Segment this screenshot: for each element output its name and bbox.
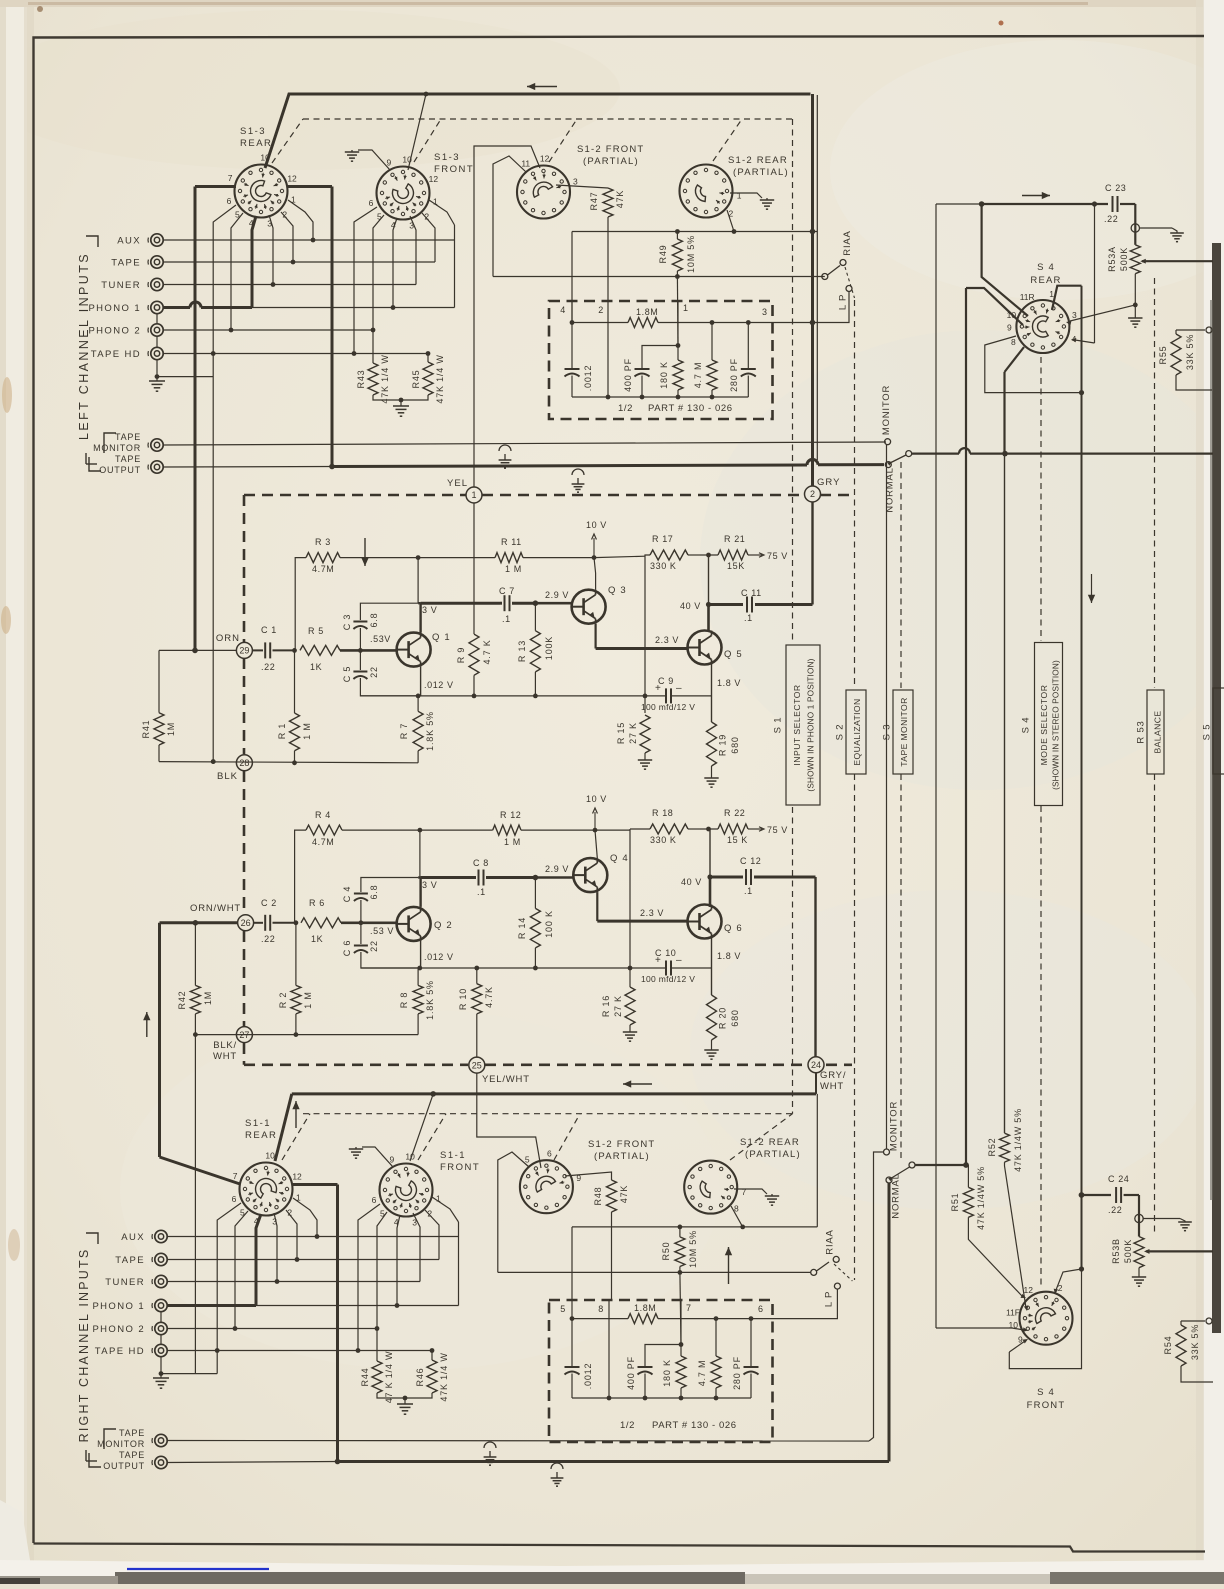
wire emitter feedback line (bottom) bbox=[361, 967, 630, 969]
svg-text:R 19: R 19 bbox=[718, 734, 728, 756]
svg-text:40 V: 40 V bbox=[680, 601, 701, 611]
capacitor C24 bbox=[1082, 1194, 1112, 1196]
wire S1-1 front pin9 to ground bbox=[362, 1147, 393, 1167]
S4 label box bbox=[1035, 643, 1063, 806]
wire monitor long vertical bbox=[886, 445, 888, 1149]
svg-text:NORMAL: NORMAL bbox=[885, 467, 896, 512]
svg-text:2.3 V: 2.3 V bbox=[655, 635, 679, 645]
jack TAPE MONITOR (left) bbox=[151, 439, 163, 451]
resistor R55 bbox=[1176, 329, 1205, 331]
svg-text:.53 V: .53 V bbox=[370, 926, 394, 936]
svg-text:27 K: 27 K bbox=[613, 995, 623, 1017]
capacitor C11 bbox=[746, 597, 748, 613]
svg-text:47K 1/4W 5%: 47K 1/4W 5% bbox=[1013, 1108, 1023, 1172]
svg-text:3: 3 bbox=[267, 218, 272, 228]
resistor R13 bbox=[534, 603, 536, 631]
resistor R6 bbox=[301, 918, 341, 928]
resistor R46 bbox=[431, 1351, 433, 1361]
svg-text:12: 12 bbox=[540, 154, 550, 164]
svg-text:11F: 11F bbox=[1006, 1307, 1020, 1317]
svg-text:R49: R49 bbox=[658, 245, 668, 264]
svg-text:MODE SELECTOR: MODE SELECTOR bbox=[1039, 685, 1049, 766]
svg-text:4.7 K: 4.7 K bbox=[482, 639, 492, 664]
rotary switch S1-1 FRONT bbox=[380, 1164, 433, 1217]
svg-text:C 6: C 6 bbox=[342, 940, 352, 956]
svg-text:MONITOR: MONITOR bbox=[889, 1101, 900, 1151]
svg-text:28: 28 bbox=[239, 758, 249, 768]
jack PHONO 1 (left) bbox=[151, 301, 163, 313]
svg-text:4.7M: 4.7M bbox=[312, 564, 334, 574]
tall thick vertical V3 (S4R pin1) bbox=[1081, 286, 1083, 1269]
svg-text:6: 6 bbox=[369, 198, 374, 208]
svg-text:GRY/: GRY/ bbox=[820, 1070, 846, 1081]
wire TAPE HD line (right) bbox=[167, 1350, 432, 1352]
wire Q4 collector bbox=[595, 830, 597, 858]
wire S1-1 front pin4 drop to PHONO1 bbox=[397, 1215, 400, 1306]
svg-text:22: 22 bbox=[369, 666, 379, 678]
wire S1-2 front pin5 to RIAA line (bottom) bbox=[498, 1152, 529, 1272]
svg-text:.0012: .0012 bbox=[583, 1363, 593, 1390]
svg-text:1: 1 bbox=[737, 191, 742, 201]
svg-text:R 20: R 20 bbox=[718, 1007, 728, 1029]
svg-text:S1-2 FRONT: S1-2 FRONT bbox=[577, 144, 644, 155]
resistor R42 bbox=[194, 923, 196, 986]
resistor R22 bbox=[700, 828, 718, 830]
svg-text:.22: .22 bbox=[261, 934, 275, 944]
wire PHONO1 line thin continuation bbox=[252, 307, 455, 309]
svg-text:6: 6 bbox=[372, 1195, 377, 1205]
wire S4R pin11R thick from bus bbox=[982, 204, 1028, 316]
wire Q1 emitter bbox=[420, 667, 422, 696]
flow arrow left (below dashed) bbox=[623, 1083, 652, 1085]
jack AUX (left) bbox=[151, 234, 163, 246]
wire S1-3 rear pin12 thick to tape output bus bbox=[288, 185, 332, 188]
svg-text:5: 5 bbox=[560, 1304, 566, 1314]
svg-text:6: 6 bbox=[227, 196, 232, 206]
svg-text:TAPE: TAPE bbox=[115, 1255, 145, 1266]
svg-text:C 5: C 5 bbox=[342, 666, 352, 682]
resistor 4.7M in part box bbox=[711, 323, 713, 361]
wire LP to part box pin3 bbox=[748, 292, 849, 323]
wire S1-3 front pin1 riser from AUX bbox=[429, 200, 455, 225]
wire S1-3 rear pin3 drop to TUNER bbox=[269, 215, 273, 285]
node 27 BLK/WHT bbox=[236, 1027, 252, 1043]
svg-text:1 M: 1 M bbox=[504, 837, 521, 847]
svg-text:2: 2 bbox=[282, 210, 287, 220]
svg-text:C 8: C 8 bbox=[473, 858, 489, 868]
svg-text:–: – bbox=[676, 955, 682, 966]
svg-text:6: 6 bbox=[547, 1148, 552, 1158]
part box pin 4 bbox=[571, 301, 573, 323]
wire S1-3 rear pin2 drop to TAPE bbox=[281, 212, 293, 262]
part box bottom bus (bottom) bbox=[572, 1397, 751, 1399]
svg-text:R 10: R 10 bbox=[458, 988, 468, 1010]
wire monitor pivot thick to right bbox=[912, 453, 959, 455]
svg-text:GRY: GRY bbox=[817, 477, 840, 488]
svg-text:S1-2 REAR: S1-2 REAR bbox=[740, 1137, 800, 1148]
wire S1-3 front pin6 drop to TAPE HD bbox=[354, 207, 377, 354]
svg-text:Q 6: Q 6 bbox=[724, 923, 743, 934]
wire tap to ground (R53A) bbox=[1140, 227, 1173, 229]
svg-text:R 11: R 11 bbox=[501, 537, 522, 547]
svg-text:2: 2 bbox=[810, 489, 815, 499]
svg-text:C 7: C 7 bbox=[499, 586, 515, 596]
switch tape monitor NORMAL/MONITOR (bottom) bbox=[884, 1149, 890, 1155]
svg-text:TUNER: TUNER bbox=[101, 280, 141, 291]
svg-text:S 4: S 4 bbox=[1037, 1387, 1055, 1398]
dashed S2 equalization line bbox=[854, 300, 856, 688]
ground (R16) bbox=[623, 1031, 637, 1033]
svg-text:.22: .22 bbox=[1104, 214, 1118, 224]
jack TAPE HD (right) bbox=[155, 1344, 167, 1356]
svg-text:Q 1: Q 1 bbox=[432, 632, 451, 643]
capacitor C1 bbox=[252, 649, 263, 651]
wire Q6 collector bus thick with C12 bbox=[710, 876, 743, 879]
resistor R17 bbox=[645, 555, 650, 696]
blue pen mark bbox=[127, 1568, 269, 1570]
part box bottom bus bbox=[572, 396, 748, 398]
svg-text:R 21: R 21 bbox=[724, 534, 745, 544]
svg-text:.0012: .0012 bbox=[583, 365, 593, 392]
wire PHONO2 line (right) bbox=[167, 1328, 377, 1330]
wire PHONO1 line thick (left) bbox=[164, 306, 191, 309]
jack TAPE HD (left) bbox=[151, 347, 163, 359]
svg-text:R 18: R 18 bbox=[652, 808, 673, 818]
svg-text:R 17: R 17 bbox=[652, 534, 673, 544]
svg-text:Q 2: Q 2 bbox=[434, 920, 453, 931]
svg-text:BLK/: BLK/ bbox=[213, 1040, 237, 1051]
svg-text:.22: .22 bbox=[261, 662, 275, 672]
wire YEL node down to R9 bbox=[473, 503, 475, 634]
svg-text:FRONT: FRONT bbox=[1027, 1400, 1066, 1411]
svg-text:NORMAL: NORMAL bbox=[891, 1173, 902, 1218]
dashed linkage S1 bottom horizontal bbox=[303, 1113, 793, 1115]
svg-text:R52: R52 bbox=[987, 1138, 997, 1157]
wire bus 1226 (bottom) bbox=[572, 1226, 817, 1228]
wire S4 rear pin3 diagonal bbox=[1070, 305, 1135, 321]
svg-text:.012 V: .012 V bbox=[424, 680, 454, 690]
shield ground on tape output line bbox=[572, 469, 584, 475]
svg-text:7: 7 bbox=[233, 1171, 238, 1181]
svg-text:Q 5: Q 5 bbox=[724, 649, 743, 660]
resistor R19 bbox=[707, 722, 717, 766]
svg-text:3 V: 3 V bbox=[422, 880, 437, 890]
R53 label box bbox=[1147, 690, 1164, 774]
svg-text:6.8: 6.8 bbox=[369, 885, 379, 900]
svg-text:26: 26 bbox=[241, 918, 251, 928]
svg-text:.53V: .53V bbox=[370, 634, 391, 644]
node 24 GRY/WHT bbox=[808, 1057, 824, 1073]
ground (right input jacks) bbox=[153, 1377, 169, 1379]
wire riser AUX-PHONO1 to S1-3 front pin1 bbox=[454, 225, 456, 308]
wire BLK line bbox=[159, 762, 418, 763]
svg-text:LEFT CHANNEL INPUTS: LEFT CHANNEL INPUTS bbox=[77, 252, 91, 440]
wire ORN/WHT line left thick feed bbox=[160, 921, 238, 924]
jack TUNER (left) bbox=[151, 278, 163, 290]
svg-text:47K: 47K bbox=[619, 1185, 629, 1203]
jack TAPE (left) bbox=[151, 256, 163, 268]
svg-text:S 5: S 5 bbox=[1202, 724, 1213, 741]
wire Q1 collector bbox=[419, 603, 421, 632]
svg-text:FRONT: FRONT bbox=[434, 164, 474, 175]
supply 75V (top) bbox=[757, 554, 762, 556]
rotary switch S1-2 FRONT (partial) bottom bbox=[520, 1160, 573, 1213]
svg-text:1.8 V: 1.8 V bbox=[717, 951, 741, 961]
svg-text:5: 5 bbox=[380, 1209, 385, 1219]
svg-text:R43: R43 bbox=[356, 370, 366, 389]
svg-text:S 1: S 1 bbox=[773, 717, 784, 734]
dashed S4 mode selector line bbox=[1040, 357, 1042, 641]
svg-text:R54: R54 bbox=[1163, 1336, 1173, 1355]
svg-text:C 24: C 24 bbox=[1108, 1174, 1129, 1184]
jack TAPE OUTPUT (left) bbox=[151, 461, 163, 473]
right page edge strip bbox=[1203, 0, 1224, 1584]
dashed linkage S1 top horizontal bbox=[303, 118, 793, 120]
svg-text:.1: .1 bbox=[502, 614, 511, 624]
svg-text:8: 8 bbox=[598, 1304, 604, 1314]
ground (S1-1 front pin9) bbox=[349, 1148, 363, 1150]
node 29 ORN bbox=[236, 642, 252, 658]
svg-text:4: 4 bbox=[560, 305, 566, 315]
capacitor 280PF in part box (bottom) bbox=[750, 1319, 752, 1366]
svg-text:75 V: 75 V bbox=[767, 551, 788, 561]
left page edge bbox=[0, 0, 27, 1584]
channel box bottom edge dashed bbox=[244, 1064, 468, 1067]
svg-text:3: 3 bbox=[1072, 310, 1077, 320]
jack ground chain (left) bbox=[156, 314, 158, 325]
svg-text:INPUT SELECTOR: INPUT SELECTOR bbox=[792, 684, 802, 765]
svg-text:29: 29 bbox=[239, 646, 249, 656]
svg-text:400 PF: 400 PF bbox=[623, 358, 633, 392]
wire tape output bus thick (right) bbox=[338, 1460, 890, 1463]
wire S4R pin8 thick down (V2) bbox=[1005, 347, 1025, 372]
wire C12 down to GRY/WHT node bbox=[814, 877, 816, 1057]
wire S1-1 rear pin12 thick to tape output bus bbox=[292, 1183, 338, 1186]
svg-text:OUTPUT: OUTPUT bbox=[99, 465, 141, 475]
pot tap open circle (C24/R53B) bbox=[1135, 1214, 1143, 1222]
svg-text:R 14: R 14 bbox=[517, 917, 527, 939]
wire thick diagonal to S1-1 rear pin10 bbox=[275, 1094, 292, 1161]
wire output bus y204 thin bbox=[936, 203, 982, 205]
wire R52 to S4F pin11F bbox=[1005, 1162, 1027, 1308]
wire ORN line left + R41 corner bbox=[159, 649, 236, 651]
channel box left edge dashed bbox=[243, 495, 246, 642]
svg-text:100 mfd/12 V: 100 mfd/12 V bbox=[641, 702, 695, 712]
svg-text:YEL: YEL bbox=[447, 478, 468, 489]
wire S1-1 rear pin2 drop to TAPE bbox=[286, 1210, 297, 1260]
svg-text:280 PF: 280 PF bbox=[729, 358, 739, 392]
rotary switch S4 FRONT bbox=[1020, 1292, 1073, 1345]
wire S1-1 rear pin1 drop to AUX bbox=[293, 1198, 317, 1237]
wire S1-1 rear pin4 drop thick to PHONO1 bbox=[256, 1214, 261, 1306]
wire S4R pin9 path bbox=[985, 336, 1082, 393]
svg-text:1: 1 bbox=[471, 490, 476, 500]
wire Q5 emitter bbox=[711, 665, 713, 723]
resistor 4.7M in part box (bottom) bbox=[715, 1319, 717, 1356]
svg-text:(PARTIAL): (PARTIAL) bbox=[745, 1149, 801, 1160]
jack TAPE (right) bbox=[155, 1253, 167, 1265]
capacitor C23 bbox=[1112, 196, 1114, 212]
wire ground link to BLK rail bbox=[157, 376, 213, 378]
svg-text:3 V: 3 V bbox=[422, 605, 437, 615]
svg-text:C 10: C 10 bbox=[655, 948, 676, 958]
svg-text:S1-1: S1-1 bbox=[440, 1150, 466, 1161]
svg-text:S 2: S 2 bbox=[835, 724, 846, 741]
wire S1-1 front pin6 drop to TAPE HD bbox=[358, 1204, 380, 1351]
svg-text:MONITOR: MONITOR bbox=[97, 1439, 145, 1449]
svg-text:4: 4 bbox=[391, 220, 396, 230]
flow arrow up (right of R50) bbox=[728, 1247, 730, 1284]
svg-text:R48: R48 bbox=[593, 1187, 603, 1206]
part box pin 7 bbox=[680, 1300, 682, 1356]
down arrow beside V3 bbox=[1091, 574, 1093, 603]
wire R53A wiper thick to edge bbox=[1142, 260, 1213, 262]
svg-text:1.8 V: 1.8 V bbox=[717, 678, 741, 688]
wire S1-3 rear pin5 drop to PHONO2 bbox=[231, 213, 243, 330]
svg-text:47K 1/4 W: 47K 1/4 W bbox=[439, 1352, 449, 1401]
svg-text:1/2: 1/2 bbox=[620, 1420, 635, 1431]
jack ground chain (right) bbox=[160, 1312, 162, 1323]
svg-text:24: 24 bbox=[811, 1060, 821, 1070]
flow arrow top bus (left) bbox=[527, 86, 557, 88]
svg-text:47 K 1/4 W: 47 K 1/4 W bbox=[384, 1351, 394, 1404]
svg-text:10M 5%: 10M 5% bbox=[688, 1230, 698, 1268]
svg-text:22: 22 bbox=[369, 940, 379, 952]
svg-text:40 V: 40 V bbox=[681, 877, 702, 887]
capacitor C4 bbox=[360, 900, 362, 923]
svg-text:BLK: BLK bbox=[217, 771, 238, 782]
capacitor .0012 in part box (bottom) bbox=[571, 1319, 573, 1366]
svg-text:MONITOR: MONITOR bbox=[93, 443, 141, 453]
resistor R21 bbox=[700, 554, 718, 556]
svg-text:Q 3: Q 3 bbox=[608, 585, 627, 596]
wire node 24 to thick bus bbox=[815, 1073, 817, 1094]
svg-text:REAR: REAR bbox=[240, 138, 272, 149]
dashed linkage diag to S1-2 rear bbox=[713, 119, 742, 161]
svg-text:R 3: R 3 bbox=[315, 537, 331, 547]
node 28 BLK bbox=[236, 755, 252, 771]
resistor R10 bbox=[476, 968, 478, 984]
svg-text:4.7 M: 4.7 M bbox=[693, 362, 703, 389]
wire output bus y204 thick bbox=[982, 203, 1108, 205]
wire S1-1 front pin5 drop to PHONO2 and R44 bbox=[377, 1212, 387, 1329]
svg-text:6.8: 6.8 bbox=[369, 613, 379, 628]
resistor R20 bbox=[707, 995, 717, 1040]
svg-text:AUX: AUX bbox=[117, 236, 141, 247]
ground (R20) bbox=[704, 1049, 718, 1051]
channel box top edge dashed bbox=[244, 494, 466, 497]
shield ground on tape monitor line (right) bbox=[484, 1442, 496, 1448]
capacitor C12 bbox=[745, 869, 747, 885]
svg-text:TAPE: TAPE bbox=[119, 1450, 145, 1460]
wire S1-2 rear pin7 to ground (bottom) bbox=[734, 1189, 767, 1194]
wire S1-1 rear pin6 drop to TAPE HD bbox=[217, 1203, 241, 1374]
svg-text:ORN: ORN bbox=[216, 633, 240, 644]
wire thin vertical x817 from top bus bbox=[816, 95, 818, 460]
svg-text:10 V: 10 V bbox=[586, 520, 607, 530]
svg-text:12: 12 bbox=[287, 173, 297, 183]
svg-text:1: 1 bbox=[683, 303, 689, 313]
svg-text:TAPE MONITOR: TAPE MONITOR bbox=[899, 697, 909, 766]
svg-text:R44: R44 bbox=[360, 1368, 370, 1387]
wire S1-3 rear pin7 thick bbox=[195, 185, 236, 188]
wire S1-1 rear pin5 drop to PHONO2 bbox=[235, 1211, 248, 1329]
svg-text:7: 7 bbox=[686, 1303, 692, 1313]
capacitor 280PF in part box bbox=[747, 323, 749, 369]
svg-text:R53B: R53B bbox=[1111, 1238, 1121, 1264]
switch RIAA/LP (bottom) bbox=[811, 1269, 817, 1275]
svg-text:S1-1: S1-1 bbox=[245, 1118, 271, 1129]
svg-text:S1-3: S1-3 bbox=[240, 126, 266, 137]
capacitor C10 bbox=[630, 967, 666, 969]
wire S1-1 front pin1 riser from AUX bbox=[432, 1197, 459, 1222]
svg-text:PHONO 1: PHONO 1 bbox=[88, 303, 141, 314]
ground (S1-2 rear pin7 bottom) bbox=[765, 1195, 779, 1197]
wire RIAA feed line bbox=[493, 276, 825, 278]
wire TUNER line (left) bbox=[163, 284, 416, 286]
svg-text:R55: R55 bbox=[1158, 346, 1168, 365]
capacitor C7 bbox=[500, 602, 502, 605]
right edge dark band bbox=[1212, 243, 1221, 1333]
wire TUNER line (right) bbox=[167, 1281, 420, 1283]
svg-text:11: 11 bbox=[521, 159, 530, 169]
svg-text:(SHOWN IN PHONO 1 POSITION): (SHOWN IN PHONO 1 POSITION) bbox=[807, 658, 816, 791]
svg-text:7: 7 bbox=[742, 1187, 747, 1197]
wire S4R pin4 from C23 node bbox=[1094, 204, 1096, 343]
wire S1-3 front pin9 to ground bbox=[358, 150, 390, 170]
wire S1-3 front pin3 riser from TUNER bbox=[410, 216, 416, 285]
svg-text:27 K: 27 K bbox=[628, 722, 638, 744]
shield ground on tape monitor line bbox=[499, 445, 511, 451]
wire PHONO1 thin continuation (right) bbox=[256, 1305, 459, 1307]
resistor R14 bbox=[534, 878, 536, 909]
svg-text:1.8K 5%: 1.8K 5% bbox=[425, 711, 435, 751]
svg-text:500K: 500K bbox=[1119, 247, 1129, 271]
part box top bus bbox=[572, 322, 628, 324]
svg-text:R 7: R 7 bbox=[399, 723, 409, 739]
ground (S1-2 rear pin1) bbox=[760, 199, 774, 201]
svg-text:1.8K 5%: 1.8K 5% bbox=[425, 980, 435, 1020]
wire top bus thick bbox=[265, 94, 811, 168]
svg-text:C 3: C 3 bbox=[342, 614, 352, 630]
svg-text:100K: 100K bbox=[544, 636, 554, 660]
wire S1-2 rear pin2 to bus bbox=[727, 210, 734, 232]
dashed linkage diag to S1-3 rear bbox=[272, 119, 303, 163]
svg-text:.1: .1 bbox=[744, 886, 753, 896]
svg-text:R 12: R 12 bbox=[500, 810, 521, 820]
rotary switch S1-2 FRONT (partial) top bbox=[517, 166, 570, 219]
svg-text:15 K: 15 K bbox=[727, 835, 748, 845]
potentiometer R53B 500K bbox=[1134, 1237, 1144, 1268]
svg-text:7: 7 bbox=[228, 173, 233, 183]
svg-text:R 22: R 22 bbox=[724, 808, 745, 818]
svg-text:TAPE: TAPE bbox=[119, 1428, 145, 1438]
part box pin 5 bbox=[571, 1300, 573, 1319]
wire AUX line (left) bbox=[163, 239, 455, 241]
jack PHONO 1 (right) bbox=[155, 1299, 167, 1311]
wire Q2 collector bbox=[419, 878, 421, 907]
wire Q3 emitter to Q5 base bus bbox=[594, 624, 596, 649]
svg-text:8: 8 bbox=[1011, 337, 1016, 347]
svg-text:6: 6 bbox=[232, 1194, 237, 1204]
svg-text:10 V: 10 V bbox=[586, 794, 607, 804]
svg-text:1: 1 bbox=[433, 197, 438, 207]
svg-text:PHONO 2: PHONO 2 bbox=[92, 1324, 145, 1335]
resistor R11 bbox=[418, 557, 495, 559]
svg-text:L P: L P bbox=[824, 1291, 835, 1307]
jack AUX (right) bbox=[155, 1230, 167, 1242]
wire TAPE line (right) bbox=[167, 1259, 439, 1261]
